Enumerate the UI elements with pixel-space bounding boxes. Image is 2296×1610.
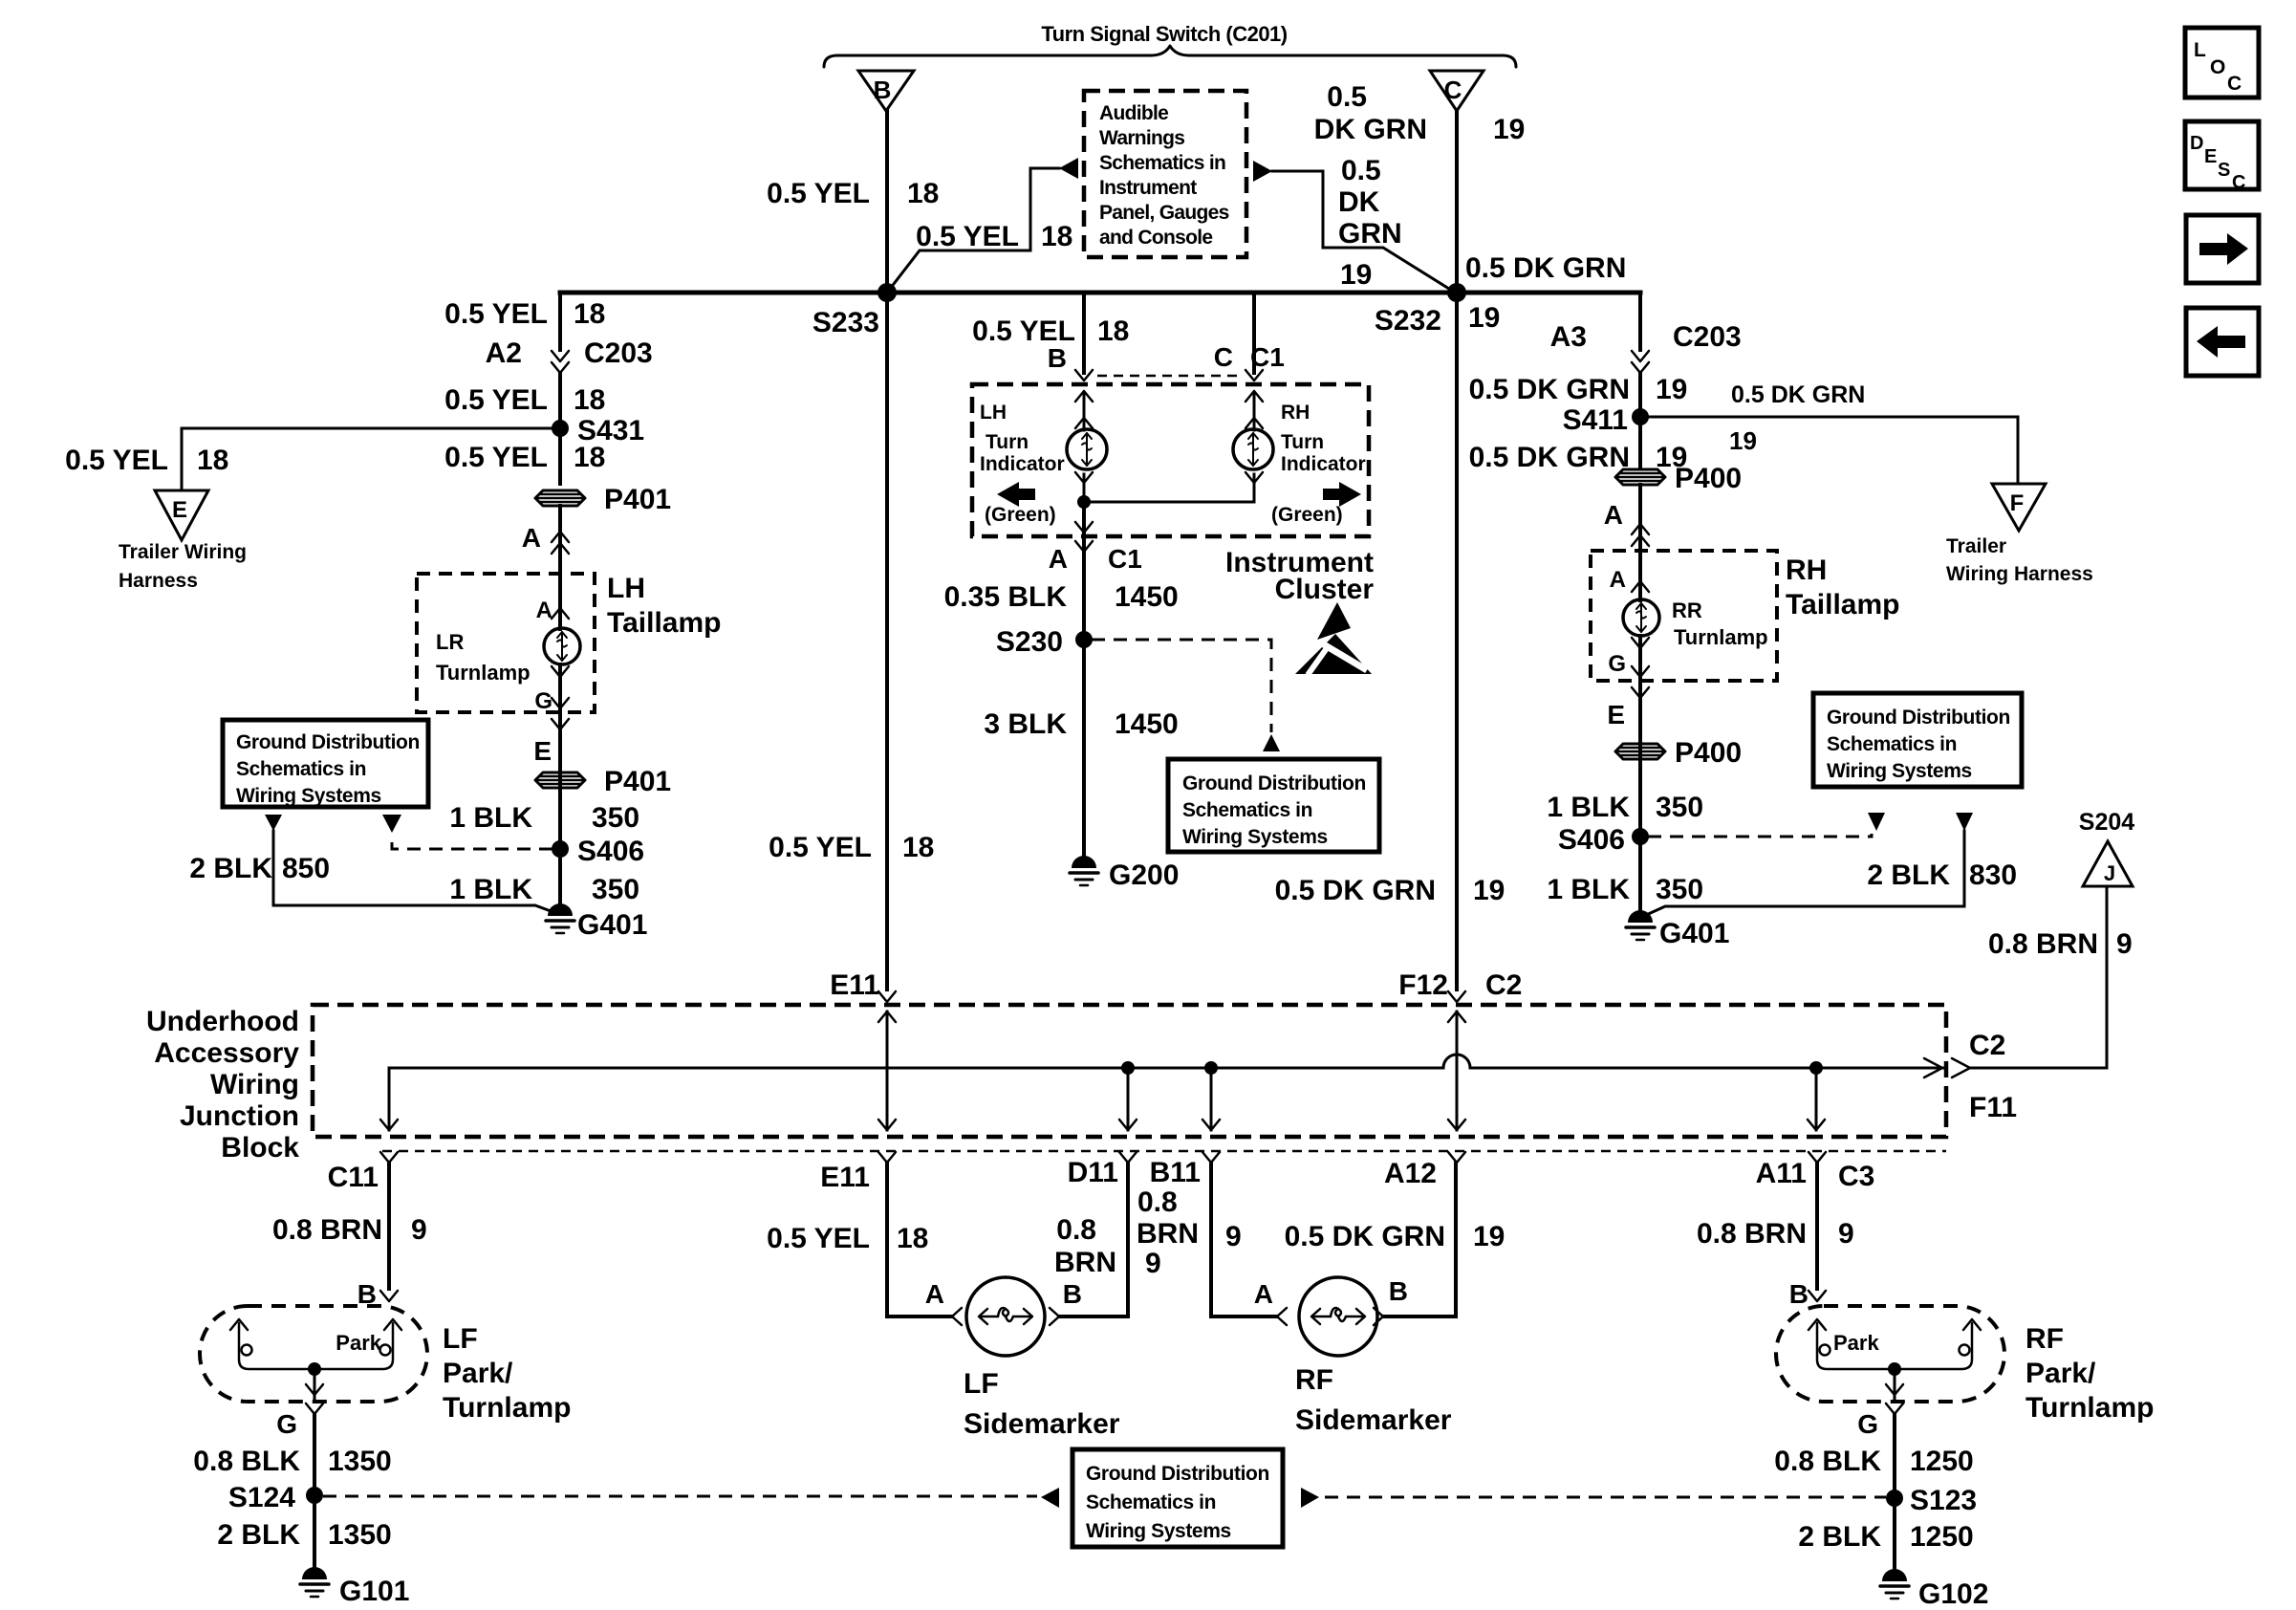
wire: main horizontal S233-S232 bus bbox=[560, 291, 1640, 295]
label 0.35 BLK 1450 bbox=[944, 581, 1179, 613]
svg-text:S123: S123 bbox=[1910, 1485, 1977, 1516]
svg-text:Park: Park bbox=[336, 1331, 381, 1355]
connector A12 bbox=[1384, 1152, 1465, 1189]
connector B (turn signal switch pin B) bbox=[858, 71, 914, 111]
ground G101 bbox=[300, 1567, 409, 1607]
C2/F11 connector chevrons at box right edge bbox=[1924, 1030, 2017, 1123]
arrowhead to right ground box (left arrow) bbox=[1868, 813, 1885, 831]
svg-text:0.5 YEL: 0.5 YEL bbox=[767, 1223, 870, 1254]
LF park/turn lamp element bbox=[230, 1319, 401, 1369]
svg-text:0.5 DK GRN: 0.5 DK GRN bbox=[1275, 875, 1436, 906]
svg-text:DK GRN: DK GRN bbox=[1314, 114, 1427, 145]
svg-text:0.5: 0.5 bbox=[1341, 155, 1381, 186]
pin A / C1 labels below cluster bbox=[1049, 544, 1142, 574]
wire joining indicator lamps bbox=[1075, 472, 1263, 502]
svg-text:E: E bbox=[533, 736, 552, 766]
label 1 BLK 350 (above S406) bbox=[449, 802, 639, 834]
label 3 BLK 1450 bbox=[984, 708, 1178, 740]
svg-text:Wiring: Wiring bbox=[210, 1069, 299, 1100]
wire: C triangle down to S232 bbox=[1455, 111, 1459, 293]
splice S431 bbox=[552, 415, 644, 446]
wire: S232 line down to cluster pin C bbox=[1252, 293, 1256, 373]
pin B chevron RF sidemarker bbox=[1374, 1308, 1383, 1325]
label 0.5 YEL 18 (above C203) bbox=[444, 298, 605, 330]
LF Sidemarker lamp bbox=[964, 1277, 1120, 1440]
svg-text:O: O bbox=[2210, 56, 2225, 78]
junction dot D11 bbox=[1119, 1061, 1137, 1130]
svg-text:1450: 1450 bbox=[1115, 708, 1179, 740]
svg-text:G401: G401 bbox=[577, 909, 647, 941]
svg-text:A: A bbox=[1604, 500, 1623, 530]
label 2 BLK 1250 bbox=[1798, 1521, 1973, 1553]
svg-text:19: 19 bbox=[1468, 302, 1500, 334]
left green arrow indicator bbox=[985, 482, 1056, 526]
arrowhead into audible box left bbox=[1059, 158, 1078, 179]
svg-text:18: 18 bbox=[574, 384, 605, 416]
svg-text:19: 19 bbox=[1473, 1221, 1505, 1252]
svg-text:Park: Park bbox=[1833, 1331, 1879, 1355]
svg-text:RF: RF bbox=[1295, 1364, 1333, 1396]
internal bus wire of junction block bbox=[389, 1055, 1946, 1068]
svg-text:G102: G102 bbox=[1918, 1578, 1988, 1610]
wire: P400 into RH taillamp pin A bbox=[1638, 485, 1642, 600]
svg-text:A11: A11 bbox=[1756, 1158, 1807, 1189]
svg-text:B: B bbox=[874, 76, 892, 104]
label 0.5 YEL 18 (below S431) bbox=[444, 442, 605, 473]
pin A label RF sidemarker bbox=[1254, 1279, 1287, 1325]
wire: C203 to S411 bbox=[1638, 374, 1642, 417]
svg-text:1350: 1350 bbox=[328, 1519, 392, 1551]
Instrument Cluster dashed box bbox=[972, 384, 1374, 605]
svg-text:C2: C2 bbox=[1485, 969, 1522, 1001]
svg-text:E: E bbox=[2204, 146, 2217, 167]
svg-text:E: E bbox=[172, 497, 187, 523]
svg-text:G: G bbox=[534, 688, 552, 714]
svg-text:C: C bbox=[1444, 76, 1462, 104]
wire: RF sidemarker pin B up to A12 bbox=[1383, 1163, 1456, 1316]
svg-text:A: A bbox=[1610, 567, 1626, 593]
label 0.8 BLK 1250 bbox=[1774, 1446, 1973, 1477]
svg-text:F11: F11 bbox=[1969, 1092, 2017, 1123]
label 2 BLK 1350 bbox=[217, 1519, 391, 1551]
svg-text:J: J bbox=[2104, 861, 2115, 885]
connector C203 pin A3 (double chevron) bbox=[1550, 321, 1742, 373]
label 2 BLK 850 bbox=[189, 853, 330, 884]
ESD sensitive symbol bbox=[1295, 602, 1372, 675]
svg-text:Turn: Turn bbox=[1281, 431, 1324, 453]
svg-text:LR: LR bbox=[436, 630, 464, 654]
svg-text:1250: 1250 bbox=[1910, 1446, 1974, 1477]
svg-text:18: 18 bbox=[907, 178, 939, 209]
svg-text:1 BLK: 1 BLK bbox=[1547, 874, 1630, 905]
wire: S233 vertical down to junction block E11 bbox=[885, 293, 889, 990]
svg-text:Indicator: Indicator bbox=[1281, 453, 1366, 475]
wire: J down to junction block C2 bbox=[1971, 886, 2107, 1068]
arrowhead into bottom ground box (left) bbox=[1041, 1488, 1059, 1508]
svg-text:9: 9 bbox=[411, 1214, 427, 1246]
svg-text:850: 850 bbox=[282, 853, 330, 884]
svg-text:0.5 YEL: 0.5 YEL bbox=[916, 221, 1019, 252]
label 0.8 BRN 9 (A11 wire) bbox=[1697, 1218, 1854, 1250]
dashed connector face C1 between pins bbox=[1097, 375, 1243, 378]
svg-text:Panel, Gauges: Panel, Gauges bbox=[1099, 202, 1229, 224]
connector D11 bbox=[1068, 1152, 1137, 1188]
label 0.5 DK GRN 19 (lower S232 wire) bbox=[1275, 875, 1505, 906]
wire: B triangle down to S233 bbox=[885, 111, 889, 293]
wire: A11 down to RF park/turnlamp pin B bbox=[1809, 1163, 1826, 1301]
svg-text:G: G bbox=[276, 1409, 297, 1439]
svg-text:C1: C1 bbox=[1108, 544, 1142, 574]
ground G200 bbox=[1070, 856, 1179, 891]
svg-text:Indicator: Indicator bbox=[980, 453, 1065, 475]
svg-text:and Console: and Console bbox=[1099, 227, 1212, 249]
LH Turn Indicator lamp bbox=[980, 391, 1107, 475]
svg-text:1 BLK: 1 BLK bbox=[449, 802, 532, 834]
pin A label inside LH taillamp bbox=[536, 598, 569, 623]
junction dot in cluster bbox=[1077, 495, 1091, 509]
svg-text:(Green): (Green) bbox=[1271, 504, 1343, 526]
dashed wire: S123 to bottom ground box bbox=[1325, 1496, 1886, 1499]
svg-text:Turn: Turn bbox=[986, 431, 1029, 453]
connector F (trailer wiring harness) bbox=[1946, 484, 2093, 585]
connector P401 (lower) bbox=[535, 766, 671, 797]
svg-text:C: C bbox=[2232, 172, 2245, 193]
dashed wire: S230 to middle ground dist box bbox=[1092, 640, 1271, 732]
wire: taillamp to P401 lower bbox=[558, 730, 562, 849]
label 0.5 DK GRN (right of audible box) bbox=[1338, 155, 1402, 291]
svg-text:Ground Distribution: Ground Distribution bbox=[1086, 1463, 1269, 1485]
ground G401 (right) bbox=[1626, 910, 1729, 949]
splice S230 bbox=[996, 626, 1093, 658]
middle Ground Distribution reference box bbox=[1168, 759, 1379, 852]
svg-text:Wiring Systems: Wiring Systems bbox=[1827, 760, 1972, 782]
svg-text:G: G bbox=[1608, 651, 1626, 677]
svg-text:G200: G200 bbox=[1109, 859, 1179, 891]
brace under title bbox=[824, 46, 1516, 67]
svg-text:0.5 YEL: 0.5 YEL bbox=[767, 178, 870, 209]
svg-text:19: 19 bbox=[1473, 875, 1505, 906]
svg-text:A: A bbox=[925, 1279, 944, 1309]
svg-text:B: B bbox=[1389, 1276, 1408, 1306]
splice S233 bbox=[812, 283, 897, 338]
svg-text:Warnings: Warnings bbox=[1099, 127, 1184, 149]
svg-text:B11: B11 bbox=[1150, 1157, 1201, 1188]
Underhood Accessory Wiring Junction Block dashed box bbox=[146, 1005, 1946, 1164]
LF Park/Turnlamp dashed housing bbox=[200, 1306, 571, 1424]
LH Taillamp dashed box bbox=[417, 573, 721, 712]
connector E (trailer wiring harness) bbox=[119, 490, 247, 592]
svg-text:S124: S124 bbox=[228, 1482, 295, 1513]
svg-text:RH: RH bbox=[1281, 402, 1310, 424]
arrowhead into middle ground box bbox=[1263, 734, 1280, 751]
svg-text:0.8 BLK: 0.8 BLK bbox=[1774, 1446, 1881, 1477]
RF Sidemarker lamp bbox=[1295, 1277, 1452, 1436]
svg-text:S204: S204 bbox=[2079, 809, 2134, 836]
svg-text:Schematics in: Schematics in bbox=[1827, 733, 1957, 755]
labels 0.8 BRN B (D11 wire) bbox=[1054, 1214, 1116, 1309]
wire: S406 to G401 bbox=[558, 849, 562, 911]
wire: cluster pin A output bbox=[1075, 502, 1093, 552]
label 0.8 BLK 1350 bbox=[193, 1446, 391, 1477]
svg-text:19: 19 bbox=[1656, 374, 1687, 405]
svg-text:9: 9 bbox=[1838, 1218, 1854, 1250]
svg-text:0.8: 0.8 bbox=[1137, 1186, 1178, 1218]
svg-text:350: 350 bbox=[1656, 792, 1703, 823]
svg-text:0.5 DK GRN: 0.5 DK GRN bbox=[1731, 381, 1865, 408]
wire: S411 right to trailer harness F bbox=[1640, 417, 2018, 484]
wire: E11 down to LF sidemarker pin A bbox=[887, 1163, 951, 1316]
svg-text:Turnlamp: Turnlamp bbox=[443, 1392, 571, 1424]
svg-text:0.5 DK GRN: 0.5 DK GRN bbox=[1465, 252, 1626, 284]
svg-text:P401: P401 bbox=[604, 484, 671, 515]
pin A label inside RH taillamp bbox=[1610, 567, 1649, 593]
svg-text:B: B bbox=[1048, 343, 1067, 373]
svg-text:Ground Distribution: Ground Distribution bbox=[1182, 772, 1366, 794]
svg-text:0.5 YEL: 0.5 YEL bbox=[444, 442, 548, 473]
svg-text:9: 9 bbox=[1225, 1221, 1242, 1252]
lamp RR Turnlamp bbox=[1623, 598, 1768, 649]
svg-text:Wiring Systems: Wiring Systems bbox=[1086, 1520, 1231, 1542]
wire: P401 into LH taillamp, pin A bbox=[558, 506, 562, 629]
wire: C203 to S431 bbox=[558, 374, 562, 428]
svg-text:E: E bbox=[1607, 700, 1625, 729]
svg-text:P400: P400 bbox=[1675, 463, 1742, 494]
svg-text:E11: E11 bbox=[820, 1162, 870, 1193]
svg-text:LH: LH bbox=[980, 402, 1007, 424]
pin C / C1 of instrument cluster bbox=[1214, 342, 1285, 381]
svg-text:0.8 BRN: 0.8 BRN bbox=[1697, 1218, 1807, 1250]
svg-text:1350: 1350 bbox=[328, 1446, 392, 1477]
connector A11 / C3 bbox=[1756, 1152, 1875, 1192]
icon button next (right arrow) bbox=[2186, 215, 2259, 283]
svg-text:Wiring Harness: Wiring Harness bbox=[1946, 563, 2093, 585]
svg-text:LF: LF bbox=[443, 1323, 478, 1355]
splice S123 bbox=[1886, 1485, 1977, 1516]
RF Park/Turnlamp dashed housing bbox=[1776, 1306, 2154, 1424]
connector face C3 (thin dashed row) bbox=[382, 1150, 1946, 1153]
svg-text:DK: DK bbox=[1338, 186, 1380, 218]
label 0.5 YEL 18 (cluster B wire) bbox=[972, 315, 1129, 347]
svg-text:GRN: GRN bbox=[1338, 218, 1402, 250]
svg-text:S411: S411 bbox=[1563, 404, 1628, 436]
svg-text:L: L bbox=[2194, 39, 2206, 61]
svg-text:B: B bbox=[1789, 1279, 1809, 1309]
label 0.5 YEL 18 (above S431) bbox=[444, 384, 605, 416]
svg-text:P400: P400 bbox=[1675, 737, 1742, 769]
label 0.5 YEL 18 (B wire) bbox=[767, 178, 939, 209]
internal drop to C11 bbox=[380, 1068, 398, 1130]
svg-text:2 BLK: 2 BLK bbox=[189, 853, 272, 884]
connector P400 (upper) bbox=[1615, 463, 1742, 494]
svg-text:RH: RH bbox=[1786, 555, 1827, 586]
svg-text:S230: S230 bbox=[996, 626, 1063, 658]
junction dot B11 bbox=[1202, 1061, 1220, 1130]
label 0.5 DK GRN 19 (below S411) bbox=[1469, 442, 1688, 473]
connector J / S204 bbox=[2079, 809, 2134, 886]
svg-text:RF: RF bbox=[2025, 1323, 2064, 1355]
arrowhead to ground dist box (left box right arrow) bbox=[382, 815, 401, 833]
svg-text:0.5 DK GRN: 0.5 DK GRN bbox=[1469, 442, 1630, 473]
label 0.8 BRN 9 (C11 wire) bbox=[272, 1214, 427, 1246]
wire: B11 down to RF sidemarker pin A bbox=[1211, 1163, 1276, 1316]
svg-text:18: 18 bbox=[1041, 221, 1072, 252]
wire: S431 to P401 bbox=[558, 428, 562, 484]
svg-text:Schematics in: Schematics in bbox=[1099, 152, 1225, 174]
svg-text:19: 19 bbox=[1493, 114, 1525, 145]
label 1 BLK 350 (above S406 right) bbox=[1547, 792, 1703, 823]
splice S232 bbox=[1375, 283, 1500, 337]
pin G of RR turnlamp bbox=[1608, 636, 1649, 698]
label 0.5 YEL 18 (trailer E wire) bbox=[65, 445, 228, 476]
svg-text:3 BLK: 3 BLK bbox=[984, 708, 1067, 740]
svg-text:Schematics in: Schematics in bbox=[236, 758, 366, 780]
svg-text:18: 18 bbox=[902, 832, 934, 863]
wire: bus down to cluster pin B bbox=[1082, 293, 1086, 373]
svg-text:Audible: Audible bbox=[1099, 102, 1168, 124]
wire: S233 to audible warnings box (left) bbox=[887, 168, 1059, 293]
internal wire E11 through block bbox=[878, 1012, 896, 1130]
label 0.8 BRN 9 (J wire) bbox=[1988, 928, 2133, 960]
connector P401 (upper) bbox=[535, 484, 671, 515]
svg-text:S: S bbox=[2218, 160, 2230, 181]
svg-text:Park/: Park/ bbox=[443, 1358, 513, 1389]
left Ground Distribution reference box bbox=[223, 720, 428, 807]
svg-text:350: 350 bbox=[1656, 874, 1703, 905]
svg-text:350: 350 bbox=[592, 802, 639, 834]
junction dot A11 bbox=[1808, 1061, 1825, 1130]
lamp LR Turnlamp bbox=[436, 628, 580, 685]
svg-text:Underhood: Underhood bbox=[146, 1006, 299, 1037]
svg-text:A: A bbox=[1254, 1279, 1273, 1309]
wire: S406 to G401 right bbox=[1638, 837, 1642, 918]
svg-text:S406: S406 bbox=[577, 836, 644, 867]
connector E11 (bottom) bbox=[820, 1152, 896, 1193]
svg-text:18: 18 bbox=[897, 1223, 928, 1254]
label 0.5 DK GRN 19 (above S411) bbox=[1469, 374, 1688, 405]
svg-text:LF: LF bbox=[964, 1368, 999, 1400]
svg-text:9: 9 bbox=[1145, 1248, 1161, 1279]
svg-text:A: A bbox=[536, 598, 552, 623]
svg-text:18: 18 bbox=[197, 445, 228, 476]
svg-text:0.5 YEL: 0.5 YEL bbox=[65, 445, 168, 476]
connector C203 pin A2 (double chevron) bbox=[486, 337, 653, 373]
svg-text:9: 9 bbox=[2116, 928, 2133, 960]
svg-text:1 BLK: 1 BLK bbox=[1547, 792, 1630, 823]
svg-text:1450: 1450 bbox=[1115, 581, 1179, 613]
svg-text:D: D bbox=[2190, 133, 2203, 154]
connector C (turn signal switch pin C) bbox=[1430, 71, 1484, 111]
dashed wire: S406 to ground distribution box (left) bbox=[392, 836, 552, 849]
svg-text:Schematics in: Schematics in bbox=[1086, 1491, 1216, 1513]
dashed wire: S124 to bottom ground box bbox=[323, 1495, 1037, 1498]
svg-text:Taillamp: Taillamp bbox=[1786, 589, 1899, 620]
svg-text:0.5: 0.5 bbox=[1327, 81, 1367, 113]
splice S406 (left) bbox=[552, 836, 644, 867]
svg-text:G401: G401 bbox=[1659, 918, 1729, 949]
E11 entry chevron at box top bbox=[830, 969, 896, 1002]
svg-text:D11: D11 bbox=[1068, 1157, 1118, 1188]
pin B chevron LF sidemarker bbox=[1050, 1308, 1059, 1325]
wire: 2 BLK 830 to G401 right bbox=[1644, 831, 1964, 916]
internal wire F12 to A12 through block bbox=[1448, 1012, 1465, 1130]
wire: RH taillamp to P400 lower bbox=[1638, 699, 1642, 837]
RF park/turn lamp element bbox=[1809, 1319, 1981, 1369]
svg-text:Turnlamp: Turnlamp bbox=[1674, 625, 1768, 649]
right green arrow indicator bbox=[1271, 482, 1361, 526]
wire: bus corner down to connector C203-A2 bbox=[558, 293, 562, 350]
svg-text:18: 18 bbox=[574, 298, 605, 330]
right Ground Distribution reference box bbox=[1813, 693, 2022, 787]
splice S411 bbox=[1563, 404, 1649, 436]
svg-text:Junction: Junction bbox=[180, 1100, 299, 1132]
svg-text:Schematics in: Schematics in bbox=[1182, 799, 1312, 821]
svg-text:C11: C11 bbox=[328, 1162, 379, 1193]
svg-text:Turnlamp: Turnlamp bbox=[2025, 1392, 2154, 1424]
svg-text:2 BLK: 2 BLK bbox=[1867, 859, 1950, 891]
svg-text:2 BLK: 2 BLK bbox=[1798, 1521, 1881, 1553]
svg-text:Sidemarker: Sidemarker bbox=[964, 1408, 1120, 1440]
label 0.5 YEL 18 (E11 wire) bbox=[769, 832, 934, 863]
pin G of LR turnlamp bbox=[534, 664, 569, 729]
wire: S411 to P400 bbox=[1638, 417, 1642, 468]
svg-text:Ground Distribution: Ground Distribution bbox=[1827, 707, 2010, 729]
svg-text:C2: C2 bbox=[1969, 1030, 2005, 1061]
svg-text:BRN: BRN bbox=[1137, 1218, 1199, 1250]
svg-text:0.8 BLK: 0.8 BLK bbox=[193, 1446, 300, 1477]
wire: 2 BLK 850 to G401 bbox=[273, 831, 558, 914]
svg-text:Block: Block bbox=[221, 1132, 299, 1164]
svg-text:0.5 DK GRN: 0.5 DK GRN bbox=[1285, 1221, 1445, 1252]
svg-text:Turnlamp: Turnlamp bbox=[436, 661, 531, 685]
svg-text:Taillamp: Taillamp bbox=[607, 607, 721, 639]
label 0.5 DK GRN 19 (trailer F wire) bbox=[1729, 381, 1865, 455]
wire: LF park G down to G101 bbox=[313, 1415, 316, 1576]
wire: bus corner down to connector C203-A3 bbox=[1638, 293, 1642, 350]
svg-text:A: A bbox=[1049, 544, 1068, 574]
svg-text:A: A bbox=[522, 523, 541, 553]
RH Taillamp dashed box bbox=[1591, 551, 1899, 681]
svg-text:18: 18 bbox=[1097, 315, 1129, 347]
svg-text:BRN: BRN bbox=[1054, 1247, 1116, 1278]
dashed wire: S406 to right ground dist box bbox=[1648, 834, 1872, 837]
svg-text:0.5 YEL: 0.5 YEL bbox=[769, 832, 872, 863]
wire: RF park G down to G102 bbox=[1893, 1415, 1896, 1577]
svg-text:F12: F12 bbox=[1398, 969, 1448, 1001]
svg-text:A12: A12 bbox=[1384, 1158, 1437, 1189]
label 1 BLK 350 (below S406) bbox=[449, 874, 639, 905]
label 0.5 DK GRN 19 (C wire) bbox=[1314, 81, 1526, 145]
wire: S232 down to junction block F12 bbox=[1455, 293, 1459, 990]
arrowhead below right ground box (2 BLK 830 wire) bbox=[1956, 813, 1973, 831]
icon button prev (left arrow) bbox=[2186, 308, 2259, 376]
svg-text:Park/: Park/ bbox=[2025, 1358, 2096, 1389]
bottom Ground Distribution reference box bbox=[1072, 1449, 1283, 1547]
svg-text:0.5 YEL: 0.5 YEL bbox=[444, 384, 548, 416]
svg-text:830: 830 bbox=[1969, 859, 2017, 891]
svg-text:G: G bbox=[1857, 1409, 1878, 1439]
label 0.5 YEL 18 (LF sidemarker wire) bbox=[767, 1223, 928, 1254]
pin A label LF sidemarker bbox=[925, 1279, 962, 1325]
svg-text:Wiring Systems: Wiring Systems bbox=[1182, 826, 1328, 848]
svg-text:(Green): (Green) bbox=[985, 504, 1056, 526]
svg-text:C: C bbox=[2227, 73, 2242, 95]
svg-text:Accessory: Accessory bbox=[154, 1037, 299, 1069]
pin B of instrument cluster bbox=[1048, 343, 1093, 381]
svg-text:Trailer Wiring: Trailer Wiring bbox=[119, 541, 247, 563]
reference box: Audible Warnings Schematics in Instrument Panel, Gauges and Console bbox=[1084, 91, 1246, 257]
wire: C11 down to LF park/turnlamp pin B bbox=[380, 1163, 398, 1301]
svg-text:C3: C3 bbox=[1838, 1161, 1874, 1192]
